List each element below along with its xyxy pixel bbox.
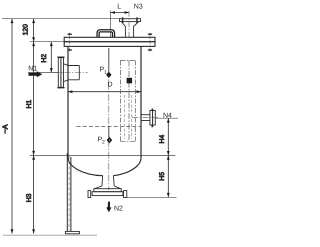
- bottom flange hub: [95, 186, 121, 189]
- svg-text:N3: N3: [134, 4, 143, 11]
- cover bolt right: [148, 33, 152, 52]
- bottom neck: [102, 176, 114, 186]
- ground baseline: [3, 234, 97, 236]
- svg-text:120: 120: [22, 24, 29, 36]
- svg-text:H5: H5: [159, 172, 166, 181]
- shell left wall: [67, 46, 69, 157]
- dimension H3: [26, 155, 35, 233]
- nozzle N4: [141, 109, 155, 128]
- N1 centerline: [54, 72, 88, 74]
- nozzle N1: [57, 57, 79, 87]
- internal basket (phantom): [120, 61, 135, 142]
- dimension H2: [41, 42, 53, 73]
- svg-text:D: D: [108, 81, 113, 88]
- support leg: [65, 153, 79, 234]
- level mark black square: [127, 78, 133, 84]
- svg-text:H2: H2: [41, 54, 48, 63]
- cover extension line left: [30, 41, 64, 43]
- N4 extension line: [156, 117, 178, 119]
- bottom head: [68, 156, 141, 176]
- shell right wall: [140, 46, 142, 157]
- internal dashed line: [77, 125, 141, 127]
- N2 flow arrow: [106, 202, 111, 213]
- dimension H5: [159, 155, 170, 197]
- vessel centerline: [108, 48, 110, 190]
- cover bolt left: [68, 33, 72, 52]
- top cover flange stack: [64, 37, 155, 46]
- dimension L: [111, 4, 130, 38]
- N4 centerline: [132, 117, 158, 119]
- P1 leader: [108, 48, 110, 72]
- svg-text:L: L: [117, 4, 121, 11]
- P2 marker: [107, 137, 113, 144]
- tangent line across vessel: [30, 154, 176, 156]
- P2 leader: [108, 127, 110, 138]
- dimension 120: [22, 19, 35, 42]
- svg-text:N1: N1: [28, 66, 37, 73]
- dimension ~A: [1, 19, 14, 234]
- dimension H4: [159, 118, 170, 155]
- svg-text:2: 2: [102, 139, 105, 145]
- svg-text:H1: H1: [26, 100, 33, 109]
- svg-text:~A: ~A: [1, 124, 10, 133]
- svg-text:H4: H4: [159, 135, 166, 144]
- nozzle N3: [120, 17, 141, 37]
- bottom flange stack: [88, 189, 127, 198]
- P2 label: [98, 136, 106, 145]
- dimension H1: [26, 42, 35, 156]
- N3 centerline: [128, 11, 130, 38]
- svg-text:H3: H3: [26, 193, 33, 202]
- N1 flow arrow: [29, 71, 43, 77]
- lifting handle: [98, 31, 113, 38]
- bottom flange extension line: [127, 196, 177, 198]
- dimension D: [68, 90, 141, 93]
- N1 extension line: [28, 72, 58, 74]
- svg-text:N4: N4: [163, 113, 172, 120]
- P1 marker: [106, 72, 111, 78]
- P1 label: [100, 67, 108, 76]
- top extension line: [2, 18, 120, 20]
- svg-text:N2: N2: [114, 206, 123, 213]
